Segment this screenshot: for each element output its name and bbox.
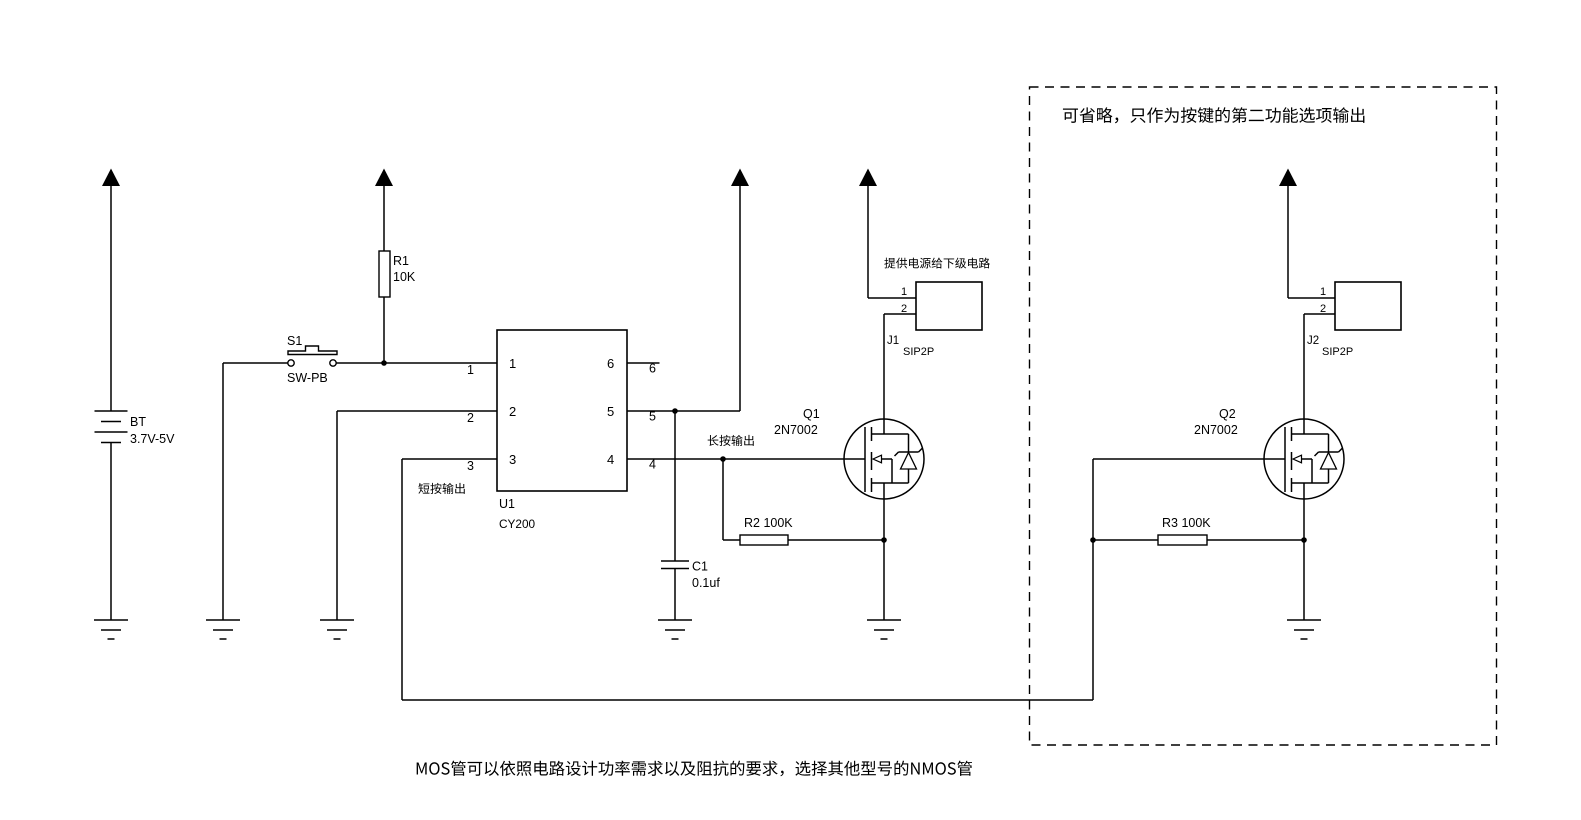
- svg-text:4: 4: [607, 452, 614, 467]
- resistor R2: [740, 535, 788, 545]
- wire pin4 junction down to R2: [722, 459, 724, 540]
- wire U1 pin6 stub: [627, 362, 660, 364]
- power symbol VCC (J1 pin1): [859, 169, 877, 187]
- ground (battery): [94, 619, 128, 621]
- svg-text:6: 6: [607, 356, 614, 371]
- node junction pin3-net/R3: [1090, 537, 1096, 543]
- wire R2 left: [723, 539, 740, 541]
- connector J1 SIP2P body: [916, 282, 982, 330]
- wire Q1 drain to J1 pin2: [883, 314, 885, 434]
- power symbol VCC (R1 top): [375, 169, 393, 187]
- node junction R3/Q2 source: [1301, 537, 1307, 543]
- svg-text:SIP2P: SIP2P: [1322, 346, 1353, 358]
- wire U1 pin3 down-around to Q2 gate: [402, 458, 497, 460]
- svg-text:R2 100K: R2 100K: [744, 516, 793, 530]
- ground (Q1 source): [867, 619, 901, 621]
- svg-text:S1: S1: [287, 334, 302, 348]
- svg-text:0.1uf: 0.1uf: [692, 576, 720, 590]
- svg-text:2: 2: [901, 303, 907, 315]
- transistor Q1 2N7002: [844, 419, 924, 499]
- svg-text:5: 5: [607, 404, 614, 419]
- svg-text:2N7002: 2N7002: [1194, 423, 1238, 437]
- node junction pin4/R2: [720, 456, 726, 462]
- power symbol VCC (U1 pin5 net): [731, 169, 749, 187]
- node junction R1/S1/pin1: [381, 360, 387, 366]
- svg-text:2: 2: [1320, 303, 1326, 315]
- dashed optional-section box: [1030, 87, 1497, 745]
- svg-text:2: 2: [467, 411, 474, 425]
- power symbol VCC (J2 pin1): [1279, 169, 1297, 187]
- svg-text:SIP2P: SIP2P: [903, 346, 934, 358]
- wire Q2 source to ground: [1303, 483, 1305, 620]
- svg-text:1: 1: [1320, 286, 1326, 298]
- note text: MOSFET selection note: [417, 761, 972, 777]
- connector J2 pin 1 wire: [1288, 297, 1335, 299]
- svg-text:SW-PB: SW-PB: [287, 371, 328, 385]
- wire S1 left to ground: [223, 362, 288, 364]
- battery BT: [95, 410, 128, 412]
- svg-text:3: 3: [467, 459, 474, 473]
- node junction pin5/C1: [672, 408, 678, 414]
- wire R3 right to Q2 source net: [1207, 539, 1304, 541]
- connector J1 pin 1 wire: [868, 297, 916, 299]
- power symbol VCC (battery +): [102, 169, 120, 187]
- svg-text:BT: BT: [130, 415, 146, 429]
- wire R3 left: [1093, 539, 1158, 541]
- wire Q2 drain to J2 pin2: [1303, 314, 1305, 434]
- switch S1: [288, 360, 294, 366]
- svg-text:1: 1: [509, 356, 516, 371]
- svg-text:3: 3: [509, 452, 516, 467]
- wire R2 right to Q1 source net: [788, 539, 884, 541]
- connector J2 pin 2 wire: [1304, 313, 1335, 315]
- wire U1 pin4 to Q1 gate: [627, 458, 865, 460]
- note text: optional second-function output: [1063, 107, 1364, 123]
- svg-text:Q1: Q1: [803, 407, 820, 421]
- wire U1 pin5 to VCC: [627, 410, 740, 412]
- resistor R3: [1158, 535, 1207, 545]
- resistor R1: [379, 251, 390, 297]
- svg-text:2: 2: [509, 404, 516, 419]
- svg-text:J2: J2: [1307, 335, 1319, 347]
- node junction R2/Q1 source: [881, 537, 887, 543]
- wire S1 to U1 pin1: [336, 362, 497, 364]
- svg-text:1: 1: [901, 286, 907, 298]
- note text: provides power to next stage: [884, 258, 990, 269]
- svg-text:C1: C1: [692, 560, 708, 574]
- wire R1 to pin1 net: [383, 297, 385, 363]
- svg-text:R3 100K: R3 100K: [1162, 516, 1211, 530]
- wire U1 pin2 to ground: [337, 410, 497, 412]
- capacitor C1: [661, 560, 689, 562]
- transistor Q2 2N7002: [1264, 419, 1344, 499]
- svg-text:CY200: CY200: [499, 517, 536, 531]
- svg-text:3.7V-5V: 3.7V-5V: [130, 432, 175, 446]
- ground (U1 pin2): [320, 619, 354, 621]
- ground (Q2 source): [1287, 619, 1321, 621]
- wire Q1 source to ground: [883, 483, 885, 620]
- svg-text:10K: 10K: [393, 270, 416, 284]
- wire pin5 junction to C1: [674, 411, 676, 561]
- svg-text:Q2: Q2: [1219, 407, 1236, 421]
- op-amp U1 body (IC CY200): [497, 330, 627, 491]
- connector J2 SIP2P body: [1335, 282, 1401, 330]
- label: long-press output: [708, 435, 754, 446]
- label: short-press output: [418, 483, 464, 494]
- svg-text:2N7002: 2N7002: [774, 423, 818, 437]
- svg-text:U1: U1: [499, 497, 515, 511]
- svg-text:J1: J1: [887, 335, 899, 347]
- ground (C1): [658, 619, 692, 621]
- ground (S1 left): [206, 619, 240, 621]
- connector J1 pin 2 wire: [884, 313, 916, 315]
- svg-text:R1: R1: [393, 254, 409, 268]
- svg-text:1: 1: [467, 363, 474, 377]
